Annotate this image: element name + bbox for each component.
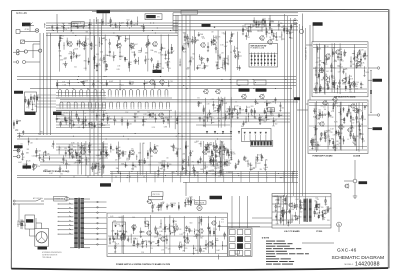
wire xyxy=(348,105,350,114)
wire xyxy=(75,25,78,27)
junction xyxy=(48,157,51,160)
wire xyxy=(84,44,87,46)
wire xyxy=(323,45,325,94)
wire xyxy=(318,72,320,78)
wire xyxy=(81,143,83,149)
polarized capacitor xyxy=(215,48,217,50)
capacitor C6 xyxy=(116,44,118,45)
ground symbol xyxy=(353,58,355,59)
wire xyxy=(131,48,134,50)
wire xyxy=(136,154,138,160)
ground symbol xyxy=(334,150,336,151)
svg-text:0.01: 0.01 xyxy=(110,216,113,218)
wire xyxy=(71,111,73,129)
resistor R57 xyxy=(347,114,348,116)
polarized capacitor xyxy=(237,112,239,114)
wire xyxy=(133,60,135,62)
svg-text:VR1: VR1 xyxy=(62,63,65,65)
wire xyxy=(360,55,362,64)
wire xyxy=(333,81,335,87)
svg-text:560: 560 xyxy=(127,240,129,242)
wire xyxy=(363,140,365,142)
svg-text:1K: 1K xyxy=(263,168,265,170)
resistor R82 xyxy=(203,109,204,111)
wire xyxy=(216,151,219,153)
resistor R106 xyxy=(122,152,123,154)
wire xyxy=(157,66,159,68)
svg-text:0.1: 0.1 xyxy=(235,102,237,104)
wire xyxy=(310,138,312,145)
svg-text:47: 47 xyxy=(259,24,261,26)
resistor R26 xyxy=(283,29,284,31)
wire xyxy=(351,119,354,121)
svg-text:33K: 33K xyxy=(61,35,64,37)
wire xyxy=(219,101,221,110)
resistor R56 xyxy=(344,118,345,120)
wire xyxy=(126,21,128,27)
svg-text:220: 220 xyxy=(355,84,358,86)
junction xyxy=(339,66,342,69)
wire xyxy=(65,119,67,125)
svg-text:VR1: VR1 xyxy=(134,167,137,169)
switch contact pair xyxy=(151,90,154,95)
junction xyxy=(230,82,231,83)
svg-text:1K: 1K xyxy=(192,151,194,153)
wire xyxy=(56,107,106,109)
diode D20 xyxy=(96,115,98,117)
svg-text:0.1: 0.1 xyxy=(95,45,97,47)
wire xyxy=(363,66,365,75)
wire xyxy=(56,115,290,117)
svg-text:4.7K: 4.7K xyxy=(359,110,362,112)
ground symbol xyxy=(279,110,281,111)
svg-text:560: 560 xyxy=(275,123,278,125)
sheet border top xyxy=(12,9,389,10)
ground symbol xyxy=(194,175,196,176)
resistor R81 xyxy=(198,102,199,104)
wire xyxy=(216,105,219,107)
wire xyxy=(183,160,185,162)
ground symbol xyxy=(217,112,219,113)
switch contact pair xyxy=(103,102,106,107)
wire xyxy=(201,58,204,60)
diode D27 xyxy=(116,148,118,150)
wire xyxy=(254,53,256,67)
svg-text:8.2K: 8.2K xyxy=(192,199,195,201)
svg-text:560: 560 xyxy=(189,39,192,41)
wire xyxy=(46,33,48,135)
wire xyxy=(81,142,83,175)
wire xyxy=(86,157,88,165)
junction xyxy=(137,59,140,62)
tap arrow xyxy=(69,220,71,221)
ground symbol xyxy=(207,149,209,150)
wire xyxy=(107,153,109,155)
polarized capacitor xyxy=(91,124,93,126)
svg-text:0.01: 0.01 xyxy=(349,88,352,90)
capacitor C29 xyxy=(51,27,53,28)
wire xyxy=(222,61,224,68)
wire xyxy=(251,53,253,67)
junction xyxy=(95,19,98,22)
wire xyxy=(218,97,220,128)
wire xyxy=(338,111,340,113)
ground symbol xyxy=(110,26,112,27)
wire xyxy=(56,82,296,84)
wire xyxy=(368,79,372,81)
wire xyxy=(58,229,74,231)
svg-text:C34: C34 xyxy=(214,245,217,247)
phone jack xyxy=(300,30,304,34)
wire xyxy=(125,165,127,167)
label small xyxy=(245,24,253,27)
wire xyxy=(99,168,102,170)
wire xyxy=(117,40,119,49)
resistor R60 xyxy=(350,116,351,118)
ground symbol xyxy=(119,89,121,90)
wire xyxy=(91,121,93,129)
svg-text:0.01: 0.01 xyxy=(189,61,192,63)
ground symbol xyxy=(349,89,351,90)
wire xyxy=(73,49,75,58)
wire xyxy=(230,97,232,127)
resistor R22 xyxy=(256,22,257,24)
svg-text:100: 100 xyxy=(324,109,327,111)
junction xyxy=(123,136,124,137)
erase head xyxy=(35,29,39,33)
junction xyxy=(247,115,250,118)
wire xyxy=(149,113,151,118)
diode D19 xyxy=(88,123,90,125)
ground symbol xyxy=(343,122,345,123)
junction xyxy=(153,23,154,24)
svg-text:220: 220 xyxy=(152,242,155,244)
resistor R18 xyxy=(207,58,208,60)
svg-text:0.01: 0.01 xyxy=(323,107,326,109)
diode D28 xyxy=(125,164,127,166)
wire xyxy=(104,35,106,72)
capacitor C11 xyxy=(167,64,169,65)
wire xyxy=(320,84,322,90)
wire xyxy=(273,117,275,125)
wire xyxy=(106,80,108,86)
wire xyxy=(315,101,317,152)
svg-text:330: 330 xyxy=(221,219,224,221)
svg-text:220: 220 xyxy=(115,159,118,161)
svg-text:100: 100 xyxy=(72,157,75,159)
wire xyxy=(58,212,74,214)
wire xyxy=(217,67,220,69)
svg-text:C34: C34 xyxy=(324,204,327,206)
svg-text:R12: R12 xyxy=(276,40,279,42)
tape selector board outline xyxy=(249,44,278,68)
resistor R74 xyxy=(107,118,108,120)
wire xyxy=(90,167,93,169)
wire xyxy=(239,106,241,113)
wire xyxy=(56,121,290,123)
wire xyxy=(59,176,61,178)
resistor R21 xyxy=(242,29,243,31)
wire xyxy=(102,13,104,25)
sheet border left xyxy=(10,10,12,268)
wire xyxy=(343,117,345,123)
junction xyxy=(127,25,128,26)
resistor R11 xyxy=(128,63,129,65)
transistor Q31 xyxy=(160,80,164,84)
polarized capacitor xyxy=(289,32,291,34)
svg-text:VR1: VR1 xyxy=(98,65,101,67)
svg-text:10K: 10K xyxy=(98,115,101,117)
transistor Q15 xyxy=(357,61,361,65)
wire xyxy=(292,171,294,182)
diode D5 xyxy=(96,65,98,67)
svg-text:R12: R12 xyxy=(121,85,124,87)
svg-text:10K: 10K xyxy=(263,120,266,122)
capacitor C45 xyxy=(320,139,322,140)
junction xyxy=(239,85,240,86)
svg-text:R12: R12 xyxy=(41,131,44,133)
ground symbol xyxy=(172,150,174,151)
wire xyxy=(324,131,326,137)
wire xyxy=(341,119,344,121)
wire xyxy=(309,125,367,127)
svg-text:22K: 22K xyxy=(153,205,156,207)
svg-text:R12: R12 xyxy=(228,155,231,157)
ground symbol xyxy=(359,130,361,131)
wire xyxy=(122,150,124,155)
junction xyxy=(238,173,239,174)
capacitor C44 xyxy=(315,129,317,130)
wire xyxy=(265,112,267,114)
wire xyxy=(167,34,169,71)
capacitor C84 xyxy=(44,152,46,153)
svg-text:33K: 33K xyxy=(265,159,268,161)
wire xyxy=(218,150,220,158)
wire xyxy=(337,85,339,93)
svg-text:6.8K: 6.8K xyxy=(153,46,156,48)
wire xyxy=(58,225,74,227)
wire xyxy=(353,50,355,58)
junction xyxy=(266,177,267,178)
svg-text:2SC: 2SC xyxy=(190,57,193,59)
diode D33 xyxy=(184,202,186,204)
wire xyxy=(217,30,219,69)
label top box xyxy=(181,11,198,15)
junction xyxy=(71,30,72,31)
svg-text:10K: 10K xyxy=(81,162,84,164)
junction xyxy=(119,83,122,86)
svg-text:VR1: VR1 xyxy=(285,28,288,30)
svg-text:33K: 33K xyxy=(137,112,140,114)
junction xyxy=(57,216,60,219)
junction xyxy=(31,103,34,106)
wire xyxy=(240,171,242,182)
wire xyxy=(233,106,235,112)
wire xyxy=(75,152,78,154)
switch contact pair xyxy=(115,90,118,95)
resistor R73 xyxy=(103,114,104,116)
wire xyxy=(46,35,178,37)
wire xyxy=(193,165,195,174)
capacitor C86 xyxy=(197,161,199,162)
wire xyxy=(259,117,261,123)
wire xyxy=(314,110,316,112)
wire xyxy=(340,102,342,151)
svg-text:1.5K: 1.5K xyxy=(30,143,33,145)
switch contact pair xyxy=(74,102,77,107)
svg-text:1458: 1458 xyxy=(182,245,186,247)
ground symbol xyxy=(198,106,200,107)
ground symbol xyxy=(269,28,271,29)
wire xyxy=(143,80,145,89)
wire xyxy=(187,198,189,206)
wire xyxy=(71,154,73,159)
wire xyxy=(120,171,122,182)
polarized capacitor xyxy=(320,86,322,88)
switch contact pair xyxy=(152,102,155,107)
svg-text:R12: R12 xyxy=(127,20,130,22)
transistor Q4 xyxy=(130,43,134,47)
svg-text:0.1: 0.1 xyxy=(223,144,225,146)
wire xyxy=(135,59,137,64)
wire xyxy=(194,37,196,44)
diode D17 xyxy=(357,110,359,112)
svg-text:47: 47 xyxy=(341,66,343,68)
wire xyxy=(69,148,72,150)
wire xyxy=(370,70,372,113)
junction xyxy=(186,88,187,89)
wire xyxy=(221,150,224,152)
polarized capacitor xyxy=(255,101,257,103)
wire xyxy=(189,58,191,66)
svg-text:560: 560 xyxy=(206,66,209,68)
wire xyxy=(237,51,239,59)
ground symbol xyxy=(142,125,144,126)
wire xyxy=(127,120,129,129)
wire xyxy=(129,64,131,66)
junction xyxy=(245,118,248,121)
svg-text:33K: 33K xyxy=(274,196,277,198)
svg-text:0.1: 0.1 xyxy=(342,61,344,63)
capacitor C63 xyxy=(206,118,208,119)
polarized capacitor xyxy=(146,44,148,46)
svg-text:0.33: 0.33 xyxy=(200,236,203,238)
head arrow xyxy=(30,23,33,26)
switch contact pair xyxy=(87,90,90,95)
svg-text:0.1: 0.1 xyxy=(203,111,205,113)
svg-text:VR1: VR1 xyxy=(27,149,30,151)
wire xyxy=(150,147,152,153)
wire xyxy=(283,171,285,182)
diode D22 xyxy=(143,83,145,85)
wire xyxy=(107,115,109,124)
junction xyxy=(100,39,103,42)
resistor R9 xyxy=(118,37,119,39)
polarized capacitor xyxy=(231,112,233,114)
svg-text:R12: R12 xyxy=(114,246,117,248)
junction xyxy=(165,175,166,176)
resistor R55 xyxy=(339,136,340,138)
junction xyxy=(36,139,37,140)
wire xyxy=(350,131,352,139)
wire xyxy=(56,124,110,126)
resistor R5 xyxy=(79,42,80,44)
wire xyxy=(271,28,273,35)
resistor R79 xyxy=(83,82,84,84)
wire xyxy=(339,135,341,141)
diode D23 xyxy=(239,108,241,110)
switch contact pair xyxy=(59,90,62,95)
wire xyxy=(226,149,228,156)
polarized capacitor xyxy=(213,39,215,41)
wire xyxy=(336,131,339,133)
wire xyxy=(224,31,226,72)
wire xyxy=(101,119,104,121)
wire xyxy=(349,82,352,84)
wire xyxy=(260,53,262,67)
svg-text:VR1: VR1 xyxy=(166,206,169,208)
wire xyxy=(140,47,142,52)
wire xyxy=(162,165,165,167)
svg-text:8.2K: 8.2K xyxy=(152,127,155,129)
wire xyxy=(353,133,355,141)
svg-text:100: 100 xyxy=(356,82,359,84)
resistor R15 xyxy=(187,37,188,39)
ground symbol xyxy=(327,89,329,90)
svg-text:0.047: 0.047 xyxy=(136,244,140,246)
svg-text:1K: 1K xyxy=(98,63,100,65)
ground symbol xyxy=(106,156,108,157)
svg-text:0.33: 0.33 xyxy=(221,142,224,144)
wire xyxy=(111,24,114,26)
wire xyxy=(13,61,16,63)
wire xyxy=(50,33,52,135)
wire xyxy=(342,69,344,75)
wire xyxy=(65,160,67,169)
wire xyxy=(207,42,209,50)
ground symbol xyxy=(168,85,170,86)
resistor R63 xyxy=(354,139,355,141)
wire xyxy=(230,153,232,159)
ground symbol xyxy=(31,109,33,110)
wire xyxy=(314,85,316,93)
svg-text:1.5K: 1.5K xyxy=(209,171,212,173)
svg-text:C34: C34 xyxy=(351,118,354,120)
svg-text:1458: 1458 xyxy=(324,213,328,215)
junction xyxy=(97,165,100,168)
ground symbol xyxy=(85,125,87,126)
wire xyxy=(17,133,232,135)
wire xyxy=(242,25,244,34)
diode D18 xyxy=(85,120,87,122)
junction xyxy=(68,82,71,85)
wire xyxy=(40,154,108,156)
svg-text:220: 220 xyxy=(148,242,150,244)
switch contact pair xyxy=(108,90,111,95)
wire xyxy=(220,97,222,128)
wire xyxy=(74,149,76,155)
svg-text:0.047: 0.047 xyxy=(17,121,21,123)
wire xyxy=(316,44,318,93)
wire xyxy=(56,149,108,151)
svg-text:0.1: 0.1 xyxy=(221,221,223,223)
wire xyxy=(83,42,85,49)
wire xyxy=(213,35,215,45)
tap arrow xyxy=(69,216,71,217)
svg-text:R12: R12 xyxy=(287,30,290,32)
wire xyxy=(154,144,156,150)
junction xyxy=(148,35,149,36)
